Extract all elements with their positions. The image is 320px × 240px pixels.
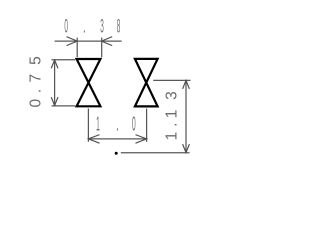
dimension 1.13 right: text (rotated) [163,91,180,140]
svg-text:8: 8 [117,16,121,37]
dimension 1.0 bottom: dimension line [88,138,146,140]
svg-text:3: 3 [100,16,104,37]
svg-text:3: 3 [163,91,180,100]
dimension 0.38 top: text [64,16,120,38]
dimension 0.75 left: up arrowhead [51,60,58,68]
leader line from dot [121,152,190,154]
svg-text:0: 0 [64,16,68,37]
svg-text:1: 1 [96,114,100,135]
dimension 0.38 top: right arrowhead [102,37,113,46]
svg-text:5: 5 [27,56,44,65]
dimension 1.13 right: down arrowhead [183,144,190,153]
dimension 0.75 left: text (rotated) [27,56,44,107]
dimension 1.0 bottom: left extension line [87,109,89,142]
svg-text:1: 1 [163,132,180,141]
dimension 1.0 bottom: left arrowhead [88,135,99,144]
svg-text:1: 1 [163,110,180,119]
dimension 0.75 left: down arrowhead [51,97,58,105]
dimension 1.0 bottom: text [96,114,135,136]
datum point dot [115,152,118,155]
dimension 0.75 left: top extension line [52,59,76,61]
svg-text:.: . [116,114,119,136]
dimension 1.13 right: top extension line [153,79,190,81]
dimension 1.0 bottom: right extension line [146,109,148,142]
dimension 0.75 left: dimension line [54,60,56,106]
svg-text:.: . [83,16,86,38]
svg-text:.: . [163,123,180,127]
dimension 1.0 bottom: right arrowhead [136,135,147,144]
dimension 0.38 top: right extension line [101,38,103,58]
svg-text:7: 7 [27,74,44,83]
dimension 0.38 top: left arrowhead [67,37,78,46]
dimension 0.75 left: bottom extension line [52,105,76,107]
dimension 1.13 right: up arrowhead [183,80,190,89]
bowtie left (hourglass outline) [77,59,101,106]
bowtie right (hourglass outline) [135,59,158,107]
svg-text:.: . [27,89,44,93]
dimension 0.38 top: dimension line [55,40,122,42]
dimension 1.13 right: dimension line [185,80,187,152]
dimension 0.38 top: left extension line [76,38,78,58]
svg-text:0: 0 [27,99,44,108]
svg-text:0: 0 [132,114,136,135]
